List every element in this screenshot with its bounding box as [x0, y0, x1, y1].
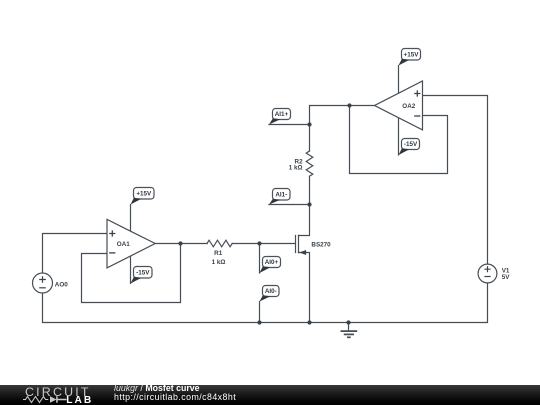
- svg-text:-15V: -15V: [136, 270, 150, 277]
- svg-text:AI0+: AI0+: [265, 259, 279, 266]
- svg-text:-15V: -15V: [404, 141, 418, 148]
- svg-text:OA2: OA2: [402, 103, 415, 110]
- svg-text:AI1+: AI1+: [275, 111, 289, 118]
- svg-text:R1: R1: [214, 250, 223, 257]
- svg-text:5V: 5V: [502, 274, 511, 281]
- svg-text:AI0-: AI0-: [265, 288, 277, 295]
- svg-text:1 kΩ: 1 kΩ: [289, 165, 303, 172]
- svg-text:+15V: +15V: [136, 191, 152, 198]
- svg-text:BS270: BS270: [311, 242, 331, 249]
- svg-text:AI1-: AI1-: [275, 191, 287, 198]
- svg-text:AO0: AO0: [55, 282, 68, 289]
- svg-text:+15V: +15V: [404, 52, 420, 59]
- svg-text:1 kΩ: 1 kΩ: [212, 259, 226, 266]
- svg-text:OA1: OA1: [117, 241, 130, 248]
